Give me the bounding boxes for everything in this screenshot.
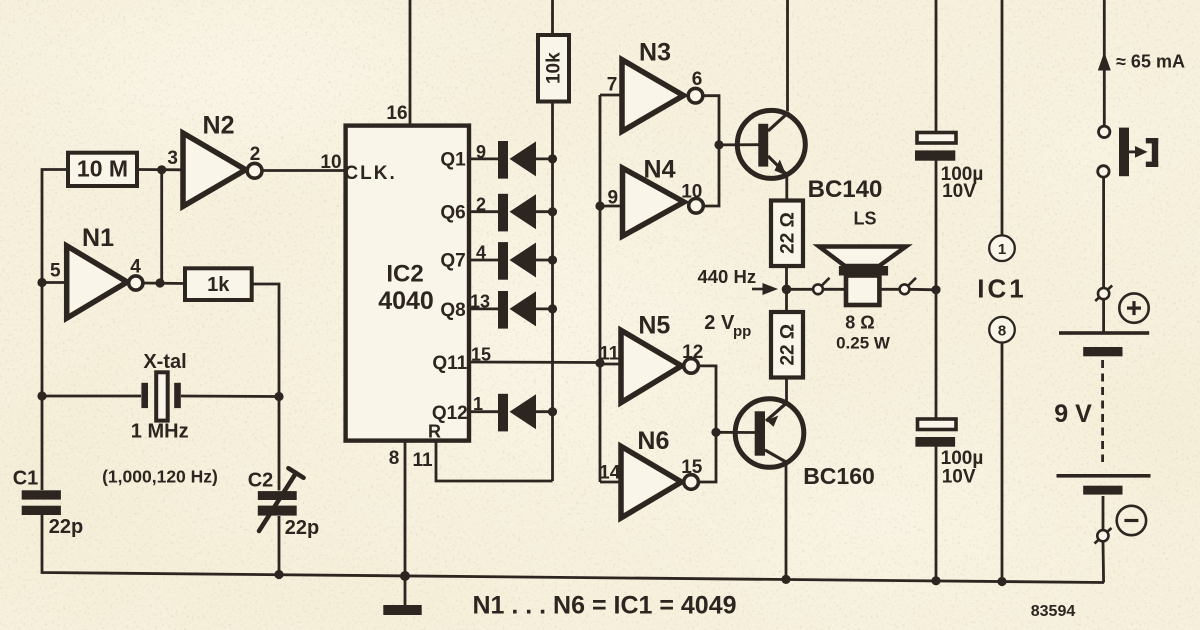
svg-text:4040: 4040 (378, 287, 434, 315)
svg-text:Q11: Q11 (432, 353, 467, 374)
svg-text:2 V: 2 V (704, 312, 735, 334)
svg-text:16: 16 (386, 103, 407, 124)
svg-text:1: 1 (998, 241, 1006, 258)
svg-text:pp: pp (733, 323, 751, 340)
svg-text:15: 15 (471, 345, 491, 365)
svg-text:22 Ω: 22 Ω (778, 324, 799, 366)
svg-text:6: 6 (692, 69, 703, 90)
svg-text:Q8: Q8 (440, 300, 465, 321)
svg-text:N2: N2 (203, 112, 235, 140)
svg-text:IC2: IC2 (386, 261, 423, 288)
svg-text:Q7: Q7 (440, 251, 465, 272)
svg-text:C1: C1 (13, 468, 39, 490)
svg-text:83594: 83594 (1031, 603, 1076, 620)
svg-text:7: 7 (607, 75, 618, 96)
svg-text:CLK.: CLK. (344, 163, 396, 184)
svg-text:5: 5 (50, 261, 61, 282)
svg-text:9 V: 9 V (1054, 400, 1092, 428)
svg-text:LS: LS (853, 209, 876, 229)
svg-text:Q1: Q1 (440, 150, 466, 171)
svg-text:0.25 W: 0.25 W (836, 334, 891, 353)
svg-text:22p: 22p (285, 517, 319, 539)
svg-text:8 Ω: 8 Ω (845, 313, 874, 333)
svg-text:11: 11 (412, 450, 433, 471)
svg-text:4: 4 (476, 243, 486, 263)
svg-text:440 Hz: 440 Hz (697, 266, 756, 287)
svg-text:N1 . . . N6 = IC1 = 4049: N1 . . . N6 = IC1 = 4049 (472, 592, 736, 620)
svg-text:9: 9 (476, 142, 486, 162)
svg-text:15: 15 (681, 457, 703, 478)
svg-text:13: 13 (470, 292, 490, 312)
svg-text:(1,000,120 Hz): (1,000,120 Hz) (102, 467, 218, 487)
svg-text:22p: 22p (49, 516, 83, 538)
svg-text:1k: 1k (207, 274, 230, 296)
svg-text:14: 14 (599, 463, 621, 484)
svg-text:BC140: BC140 (808, 176, 883, 203)
svg-text:1 MHz: 1 MHz (131, 421, 189, 443)
svg-text:10V: 10V (942, 467, 976, 488)
svg-text:10V: 10V (942, 181, 976, 202)
svg-text:C2: C2 (248, 470, 274, 492)
svg-text:1: 1 (473, 394, 483, 414)
svg-text:N3: N3 (639, 39, 671, 67)
svg-text:2: 2 (250, 144, 261, 165)
svg-text:10k: 10k (544, 52, 565, 84)
svg-text:Q12: Q12 (432, 403, 468, 424)
svg-text:8: 8 (998, 323, 1006, 340)
svg-text:10: 10 (681, 182, 702, 203)
svg-text:12: 12 (682, 342, 703, 363)
svg-text:N6: N6 (637, 427, 669, 455)
svg-text:X-tal: X-tal (143, 351, 186, 373)
svg-text:10: 10 (320, 152, 341, 173)
svg-text:2: 2 (476, 195, 486, 215)
svg-text:10 M: 10 M (77, 156, 128, 182)
svg-text:8: 8 (389, 448, 400, 469)
svg-text:22 Ω: 22 Ω (778, 212, 799, 254)
svg-text:Q6: Q6 (440, 203, 465, 224)
svg-text:IC1: IC1 (977, 274, 1026, 304)
svg-text:N4: N4 (644, 156, 676, 184)
svg-text:3: 3 (167, 148, 178, 169)
svg-text:≈ 65 mA: ≈ 65 mA (1116, 52, 1185, 72)
svg-text:R: R (428, 422, 441, 442)
svg-text:N1: N1 (82, 224, 114, 252)
svg-text:9: 9 (608, 188, 619, 209)
svg-text:4: 4 (130, 257, 141, 278)
svg-text:BC160: BC160 (803, 463, 875, 489)
svg-text:N5: N5 (638, 312, 670, 340)
svg-text:11: 11 (599, 344, 620, 365)
